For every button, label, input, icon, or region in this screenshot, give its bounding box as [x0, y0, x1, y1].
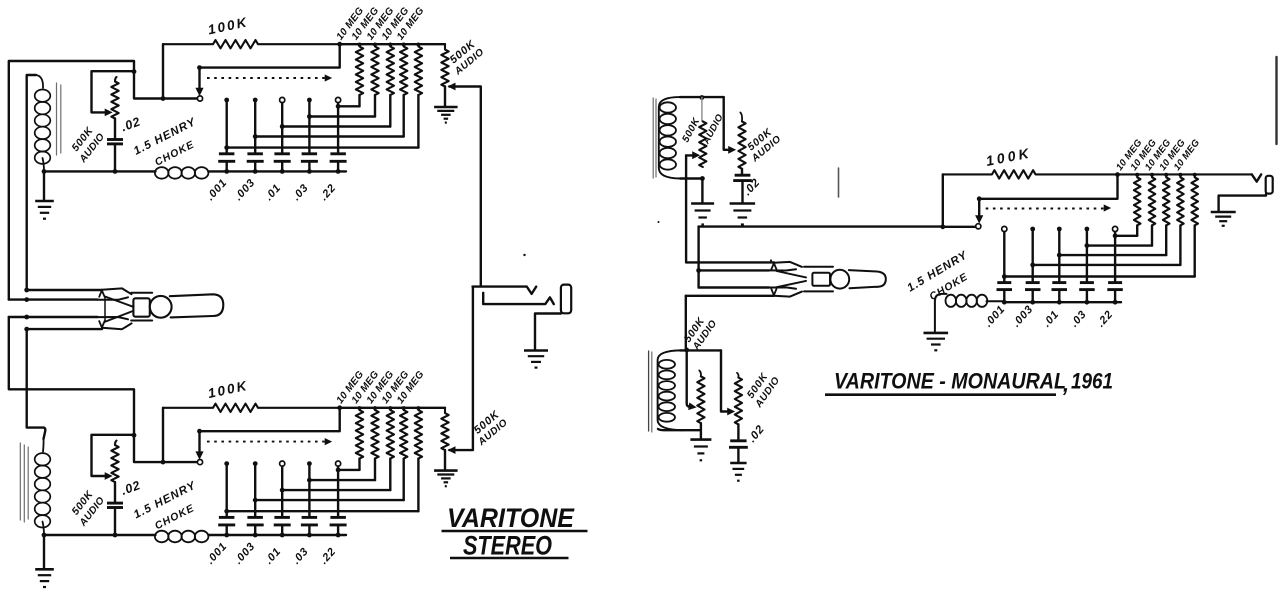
- node cap mono 1 bus: [1002, 300, 1007, 305]
- wire R3 bottom lead ch-B: [389, 459, 391, 491]
- node cap02 bus ch-B: [113, 533, 118, 538]
- wire M4 to cap02b: [737, 424, 739, 440]
- label .22 ch-B: [318, 545, 339, 566]
- wire station 3 drop ch-B: [281, 466, 283, 517]
- wire mono cap bus: [1004, 301, 1121, 303]
- wire mono foldback: [979, 175, 1117, 218]
- svg-text:.001: .001: [204, 540, 229, 566]
- switch station 2 ch-B: [253, 461, 258, 466]
- wire switch M wire3: [699, 286, 769, 288]
- wire R4 bottom lead ch-A: [403, 95, 405, 137]
- capacitor .03 ch-A: [301, 154, 318, 162]
- svg-text:1961: 1961: [1071, 369, 1113, 394]
- switch selector wire A: [27, 289, 102, 291]
- label .03 mono: [1068, 308, 1089, 329]
- node station mono 4 tap: [1085, 243, 1090, 248]
- label 10MEG mono R2: [1129, 137, 1160, 173]
- ground output pot ch-B: [434, 471, 458, 487]
- wire pickup to ground ch-A: [43, 171, 45, 200]
- svg-text:.003: .003: [1010, 303, 1035, 329]
- capacitor .02 mono top: [733, 175, 752, 180]
- node station 3 tap ch-A: [280, 124, 285, 129]
- resistor 10MEG R2 ch-B: [371, 410, 378, 459]
- node R2 top ch-A: [373, 43, 377, 47]
- wire pot to cap02 ch-A: [114, 119, 116, 140]
- label 1.5 HENRY mono: [905, 249, 970, 295]
- wire S2 to R4 ch-A: [255, 135, 404, 137]
- switch station 3 ch-A: [280, 97, 285, 102]
- switch station 2 ch-A: [253, 98, 258, 103]
- switch station mono 4: [1085, 227, 1090, 232]
- label .22 mono: [1095, 308, 1116, 329]
- pot 500K M1: [699, 121, 706, 167]
- wire pickup to ground ch-B: [43, 535, 45, 569]
- switch station 1 ch-A: [224, 98, 229, 103]
- switch M handle: [849, 270, 886, 288]
- label 10MEG mono R3: [1143, 137, 1174, 173]
- capacitor .03 mono: [1079, 283, 1095, 290]
- label CHOKE mono: [927, 271, 970, 303]
- label 100K mono: [985, 144, 1033, 169]
- choke 1.5 HENRY ch-B: [155, 531, 209, 543]
- pickup mono-1 core lines: [653, 98, 656, 178]
- scan speck 3: [658, 221, 660, 223]
- wiper M1: [686, 152, 699, 158]
- capacitor .22 mono: [1107, 283, 1123, 290]
- switch M upper prong: [769, 262, 802, 271]
- wire S1 to R5 ch-A: [227, 146, 419, 148]
- choke 1.5 HENRY mono: [935, 294, 1004, 332]
- pot 500K output ch-A: [441, 44, 448, 86]
- wire R4 bottom lead ch-B: [403, 459, 405, 501]
- node main junction ch-B: [132, 433, 137, 438]
- jack ring contact: [483, 293, 554, 304]
- wire mono S2 to R4: [1033, 264, 1181, 266]
- svg-text:100K: 100K: [985, 144, 1033, 169]
- pickup mono-2 core lines: [649, 351, 652, 432]
- node mono-2 top junction: [684, 348, 689, 353]
- switch body funnel: [105, 297, 133, 322]
- wire bottom bus right ch-A: [209, 170, 347, 172]
- capacitor .003 ch-B: [247, 517, 264, 525]
- node blob on wire C: [24, 315, 29, 320]
- label 10MEG R3 ch-A: [365, 5, 397, 42]
- wire mono S4 to R2: [1087, 244, 1152, 246]
- ground jack stereo: [524, 351, 548, 368]
- capacitor .001 ch-A: [218, 154, 235, 162]
- svg-text:.03: .03: [290, 182, 311, 203]
- wire wiper bus ch-B: [134, 435, 197, 462]
- label 500K AUDIO output ch-B: [472, 408, 510, 448]
- node station 4 tap ch-B: [307, 478, 312, 483]
- label 500K M3: [682, 315, 708, 345]
- node station 2 tap ch-B: [253, 498, 258, 503]
- resistor 10MEG mono R4: [1177, 177, 1184, 225]
- label .01 ch-A: [263, 182, 284, 203]
- wire station 4 drop ch-A: [308, 100, 310, 154]
- label 500K M1: [680, 116, 702, 145]
- label 10MEG mono R4: [1157, 137, 1188, 173]
- wire station mono 1 drop: [1003, 232, 1005, 283]
- label .01 mono: [1041, 308, 1062, 329]
- node cap .22 bus junction ch-A: [336, 169, 341, 174]
- ground output pot ch-A: [434, 107, 458, 123]
- svg-text:STEREO: STEREO: [463, 531, 552, 561]
- capacitor .01 ch-A: [274, 154, 291, 162]
- wire cap .003 to bus ch-A: [254, 162, 256, 172]
- capacitor .01 mono: [1052, 283, 1068, 290]
- resistor 10MEG R3 ch-B: [387, 410, 394, 459]
- label 500K pickup pot ch-A: [69, 124, 107, 165]
- ground mono-1 pickup: [691, 204, 714, 225]
- label 500K M4: [745, 370, 771, 401]
- label .02 ch-A: [119, 114, 142, 134]
- title VARITONE - MONAURAL 1961: [825, 369, 1113, 397]
- wire cap .01 to bus ch-B: [281, 525, 283, 535]
- wire switch M common link: [697, 227, 699, 288]
- capacitor .003 mono: [1025, 283, 1041, 290]
- wire cap .003 to bus ch-B: [254, 525, 256, 535]
- node station 2 tap ch-A: [253, 134, 258, 139]
- wire station 2 drop ch-A: [254, 100, 256, 154]
- label 10MEG R1 ch-B: [335, 369, 367, 406]
- node cap .03 bus junction ch-B: [307, 533, 312, 538]
- label AUDIO M1: [700, 112, 725, 147]
- resistor 10MEG R3 ch-A: [387, 47, 394, 96]
- resistor 10MEG mono R2: [1149, 177, 1156, 225]
- switch station mono 5: [1113, 226, 1118, 231]
- switch plate lines: [131, 293, 152, 321]
- svg-text:.03: .03: [290, 545, 311, 566]
- label .003 mono: [1010, 303, 1035, 329]
- wiper arrow mono: [976, 216, 983, 223]
- switch M plate lines: [804, 267, 833, 292]
- node mono R3 top: [1164, 173, 1168, 177]
- resistor 10MEG mono R5: [1191, 177, 1198, 225]
- pot 500K M2: [738, 121, 745, 168]
- node R2 top ch-B: [373, 406, 377, 410]
- node output junction ch-B: [337, 405, 342, 410]
- wire station 2 drop ch-B: [254, 464, 256, 518]
- label AUDIO M4: [753, 375, 783, 411]
- wiper arrow ch-A: [196, 88, 203, 95]
- switch selector wire C: [9, 316, 98, 318]
- node cap .003 bus junction ch-A: [253, 169, 258, 174]
- pot 500K pickup ch-A: [111, 77, 118, 119]
- wire ch-A pot wiper to jack tip: [449, 83, 481, 286]
- node station 4 tap ch-A: [307, 114, 312, 119]
- svg-text:.01: .01: [263, 182, 284, 203]
- wire R2 bottom lead ch-A: [374, 95, 376, 117]
- wire mono R1 bottom lead: [1136, 225, 1138, 235]
- wire S5 to R1 ch-B: [338, 469, 359, 471]
- switch selector wire B: [9, 298, 98, 300]
- node mono switch-output junction: [940, 224, 945, 229]
- pot 500K M2 top curl: [740, 113, 742, 122]
- wire cap .03 to bus ch-B: [308, 525, 310, 535]
- label .03 ch-B: [290, 545, 311, 566]
- wire mono S5 to R1: [1115, 235, 1137, 237]
- label 500K M2: [745, 126, 775, 154]
- node station mono 5 tap: [1113, 233, 1118, 238]
- svg-text:.22: .22: [318, 545, 339, 566]
- svg-text:500K: 500K: [680, 116, 702, 145]
- wire station 5 drop ch-B: [337, 466, 339, 517]
- wire mono S1 to R5: [1004, 275, 1194, 277]
- wire mono R4 bottom lead: [1179, 225, 1181, 265]
- switch M funnel: [777, 271, 807, 287]
- switch station mono 2: [1030, 227, 1035, 232]
- wire pot box ch-B: [92, 435, 135, 476]
- node mono R4 top: [1178, 173, 1182, 177]
- switch station 5 ch-A: [336, 97, 341, 102]
- jack mono sleeve: [1266, 176, 1273, 194]
- svg-text:VARITONE: VARITONE: [447, 503, 575, 533]
- switch station mono 1: [1002, 226, 1007, 231]
- wire station 1 drop ch-A: [225, 100, 227, 154]
- switch contact A: [99, 290, 104, 296]
- svg-text:100K: 100K: [207, 378, 250, 401]
- node R3 top ch-A: [388, 43, 392, 47]
- wire mono R3 bottom lead: [1165, 225, 1167, 255]
- label .001 mono: [982, 303, 1007, 329]
- switch M pivot rect: [812, 273, 830, 286]
- node foldback corner ch-A: [197, 65, 202, 70]
- wire station mono 2 drop: [1031, 229, 1033, 282]
- svg-text:.22: .22: [1095, 308, 1116, 329]
- wire cap mono 1 to bus: [1003, 290, 1005, 303]
- svg-text:.003: .003: [232, 177, 257, 203]
- resistor 10MEG R4 ch-B: [400, 410, 407, 459]
- node station 5 tap ch-A: [336, 104, 341, 109]
- node R1 top ch-B: [358, 406, 362, 410]
- node cap .001 bus junction ch-A: [224, 169, 229, 174]
- label 10MEG R5 ch-B: [395, 369, 427, 406]
- label 1.5 HENRY ch-B: [132, 479, 199, 521]
- wire switch M wire4 down: [685, 296, 687, 350]
- capacitor .001 ch-B: [218, 517, 235, 525]
- wire mono R5 bottom lead: [1193, 225, 1195, 276]
- wire pot bottom to ground ch-A: [444, 87, 446, 107]
- wire mono R2 bottom lead: [1151, 225, 1153, 245]
- wire top bus ch-B feed: [9, 317, 134, 435]
- wire top bus ch-A feed: [9, 61, 134, 300]
- ground mono-2 pot: [730, 463, 746, 481]
- resistor 10MEG mono R1: [1134, 177, 1141, 225]
- switch body upper prong: [98, 288, 132, 299]
- switch station 3 ch-B: [280, 461, 285, 466]
- svg-text:.01: .01: [263, 545, 284, 566]
- wire R1 bottom lead ch-B: [358, 459, 360, 470]
- wire mono-2 bottom: [658, 423, 701, 438]
- node mono R5 top: [1193, 173, 1197, 177]
- wire pot box ch-A: [92, 71, 135, 112]
- node mono output drop: [1115, 172, 1120, 177]
- resistor 100K mono: [943, 170, 1252, 178]
- scan speck 1: [523, 254, 525, 256]
- label 500K pickup pot ch-B: [69, 488, 107, 529]
- wire R2 bottom lead ch-B: [374, 459, 376, 481]
- resistor 10MEG R5 ch-A: [415, 47, 422, 96]
- switch selector wire D: [27, 328, 102, 330]
- label .01 ch-B: [263, 545, 284, 566]
- wire station 1 drop ch-B: [225, 464, 227, 518]
- wire mono up to 100K: [942, 174, 944, 226]
- switch handle: [170, 294, 224, 317]
- wire bottom bus left ch-B: [44, 534, 156, 536]
- scan speck 2: [770, 259, 772, 261]
- label 100K ch-B: [207, 378, 250, 401]
- wire cap mono 2 to bus: [1031, 290, 1033, 303]
- switch common terminal ch-B: [197, 460, 202, 465]
- wire mono-1 ground lead: [701, 179, 703, 204]
- wire resistor top bus ch-B: [340, 407, 445, 409]
- capacitor .02 mono bottom: [729, 441, 748, 448]
- svg-text:,: ,: [1062, 372, 1069, 397]
- wire cap .22 to bus ch-B: [337, 525, 339, 535]
- node cap .22 bus junction ch-B: [336, 533, 341, 538]
- wire mono S3 to R3: [1059, 254, 1166, 256]
- svg-text:.01: .01: [1041, 308, 1062, 329]
- wire mono-1 bottom: [680, 177, 703, 179]
- switch body lower prong: [98, 317, 132, 329]
- title VARITONE: [442, 503, 588, 533]
- node R4 top ch-A: [402, 43, 406, 47]
- svg-text:.02: .02: [746, 423, 767, 445]
- wire S3 to R3 ch-B: [282, 489, 390, 491]
- pot 500K M3: [697, 376, 704, 423]
- wire S2 to R4 ch-B: [255, 499, 404, 501]
- capacitor .22 ch-B: [330, 517, 347, 525]
- wire M1 wiper down to switch: [685, 155, 687, 262]
- wire cap .001 to bus ch-A: [225, 162, 227, 172]
- wire station 4 drop ch-B: [308, 464, 310, 518]
- dashed rotation arrow ch-B: [207, 439, 331, 445]
- pickup core lines ch-A: [57, 83, 61, 155]
- wire cap mono 4 to bus: [1086, 290, 1088, 303]
- svg-text:.001: .001: [204, 177, 229, 203]
- switch contact D: [99, 321, 104, 327]
- label 10MEG R2 ch-A: [350, 5, 382, 42]
- wire cap .01 to bus ch-A: [281, 162, 283, 172]
- label 10MEG R5 ch-A: [395, 5, 427, 42]
- resistor 100K ch-A: [163, 40, 340, 48]
- label 10MEG R2 ch-B: [350, 369, 382, 406]
- svg-text:.02: .02: [119, 478, 142, 498]
- wire mono-2 top: [680, 349, 721, 351]
- resistor 10MEG R2 ch-A: [371, 47, 378, 96]
- wire switch M output: [699, 225, 943, 227]
- resistor 10MEG R1 ch-A: [356, 47, 363, 96]
- label .001 ch-B: [204, 540, 229, 566]
- wire pot bottom to ground ch-B: [444, 450, 446, 470]
- wire mono top to M2 wiper: [724, 97, 735, 153]
- dashed rotation arrow ch-A: [207, 75, 331, 81]
- scan artifact line 2: [1275, 57, 1277, 144]
- pickup mono-2 coil: [658, 350, 684, 430]
- wire pot to cap02 ch-B: [114, 482, 116, 503]
- jack mono contact: [1252, 174, 1261, 181]
- pickup mono-1 coil: [659, 97, 682, 178]
- resistor 10MEG mono R3: [1163, 177, 1170, 225]
- wire resistor top bus ch-A: [340, 43, 445, 45]
- label AUDIO M2: [749, 134, 783, 165]
- node mono R2 top: [1150, 173, 1154, 177]
- wire S3 to R3 ch-A: [282, 125, 390, 127]
- node station 5 tap ch-B: [336, 468, 341, 473]
- switch common terminal ch-A: [197, 96, 202, 101]
- node station mono 1 tap: [1002, 274, 1007, 279]
- switch station 5 ch-B: [336, 461, 341, 466]
- wire mono jack ground: [1219, 194, 1266, 212]
- switch station 4 ch-A: [307, 98, 312, 103]
- wire cap02 to bus ch-B: [114, 508, 116, 536]
- node output junction ch-A: [337, 42, 342, 47]
- wire cap02 to bus ch-A: [114, 144, 116, 172]
- wire station 3 drop ch-A: [281, 103, 283, 154]
- title STEREO: [450, 531, 569, 561]
- pot 500K M4 top curl: [737, 373, 739, 378]
- node mono-1 top junction: [700, 95, 705, 100]
- ground mono-2 pickup: [690, 440, 711, 461]
- label 10MEG R4 ch-B: [380, 369, 412, 406]
- node junction wiper-bus ch-A: [161, 96, 166, 101]
- label .03 ch-A: [290, 182, 311, 203]
- wire bottom bus right ch-B: [209, 534, 347, 536]
- ground mono jack: [1211, 212, 1236, 226]
- node cap .001 bus junction ch-B: [224, 533, 229, 538]
- node station mono 2 tap: [1030, 263, 1035, 268]
- wire wiper bus ch-A: [134, 72, 197, 99]
- wire cap mono 3 to bus: [1058, 290, 1060, 303]
- label .02 ch-B: [119, 478, 142, 498]
- wire station mono 3 drop: [1058, 229, 1060, 282]
- node R5 top ch-B: [416, 406, 420, 410]
- capacitor .02 ch-A: [107, 140, 123, 144]
- switch station 1 ch-B: [224, 461, 229, 466]
- node cap mono 5 bus: [1113, 300, 1118, 305]
- jack sleeve body: [561, 285, 571, 314]
- wire ch-B pot wiper to jack: [449, 287, 473, 453]
- wire M2 to cap02: [741, 169, 743, 175]
- label 10MEG R4 ch-A: [380, 5, 412, 42]
- label .02 mono bottom: [746, 423, 767, 445]
- label .22 ch-A: [318, 182, 339, 203]
- switch M lower prong: [769, 287, 802, 296]
- resistor 10MEG R5 ch-B: [415, 410, 422, 459]
- wire cap .03 to bus ch-A: [308, 162, 310, 172]
- wiper arrow pickup pot ch-A: [105, 109, 111, 115]
- wire S4 to R2 ch-B: [309, 479, 375, 481]
- capacitor .003 ch-A: [247, 154, 264, 162]
- resistor 100K ch-B: [163, 404, 340, 412]
- jack tip contact: [473, 287, 537, 294]
- label .003 ch-A: [232, 177, 257, 203]
- pot 500K output ch-B: [441, 408, 448, 450]
- wire switch M wire2: [699, 269, 769, 271]
- label .001 ch-A: [204, 177, 229, 203]
- node pickup bus junction ch-A: [42, 169, 47, 174]
- pot 500K M4: [735, 378, 742, 425]
- node junction wiper-bus ch-B: [161, 460, 166, 465]
- node station 1 tap ch-A: [224, 145, 229, 150]
- node station mono 3 tap: [1057, 253, 1062, 258]
- switch knob circle: [150, 296, 172, 318]
- switch station 4 ch-B: [307, 461, 312, 466]
- node cap mono 3 bus: [1057, 300, 1062, 305]
- ground mono-1 pot: [730, 204, 756, 225]
- wire cap .001 to bus ch-B: [225, 525, 227, 535]
